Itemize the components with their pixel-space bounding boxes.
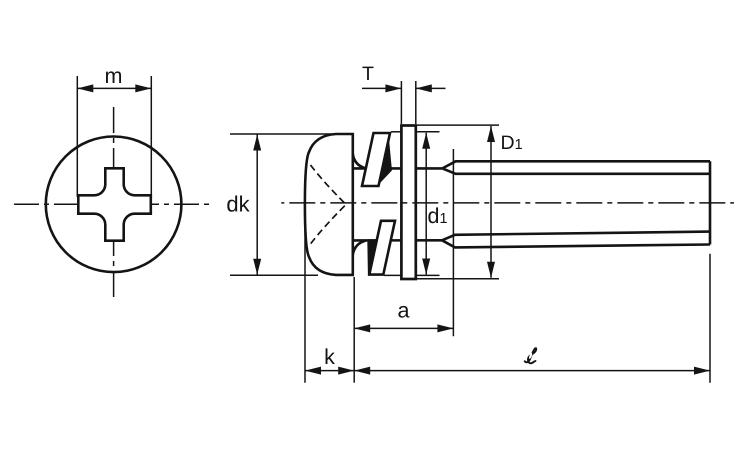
label k	[326, 348, 335, 364]
label d1	[428, 207, 446, 223]
screw head outline circle (front view)	[46, 137, 182, 273]
neck fillet bottom	[353, 241, 366, 255]
a extension line	[452, 149, 454, 336]
label l (script ell)	[525, 348, 537, 363]
d1 extension line bottom left segment	[384, 274, 401, 276]
D1 extension line top	[417, 124, 500, 126]
m extension line left	[76, 76, 78, 197]
T dimension arrows	[362, 87, 401, 89]
label D1	[502, 136, 522, 149]
label dk	[227, 196, 249, 212]
spring washer bottom half wedge	[367, 239, 379, 274]
l dimension line	[354, 370, 710, 372]
front view: vertical centerline	[113, 107, 115, 300]
neck fillet top	[353, 154, 366, 168]
label m	[106, 71, 121, 83]
m extension line right	[150, 76, 152, 197]
T extension line left	[400, 81, 402, 124]
dk extension line bottom	[230, 274, 318, 276]
d1 dimension line	[425, 133, 427, 275]
shaft entry line bottom	[353, 239, 442, 242]
d1 extension line top	[417, 131, 440, 133]
label a	[398, 306, 409, 318]
a dimension line	[354, 327, 453, 329]
d1 extension line top left segment	[391, 131, 401, 133]
l extension line right	[709, 254, 711, 383]
d1 extension line bottom	[417, 274, 440, 276]
dk extension line top	[230, 133, 336, 135]
T extension line right	[415, 81, 417, 124]
spring washer top half	[362, 133, 390, 186]
dk dimension line	[256, 135, 258, 275]
spring washer bottom half	[369, 221, 395, 275]
k extension line right	[353, 277, 355, 383]
D1 dimension line	[490, 126, 492, 278]
hidden recess arc lower (dashed)	[311, 206, 345, 244]
side view: pan head outline	[305, 134, 353, 275]
D1 extension line bottom	[417, 278, 500, 280]
label T	[362, 67, 373, 80]
phillips cross recess outline	[78, 168, 151, 240]
thread profile bottom	[442, 232, 710, 248]
spring washer top gap wedge	[378, 135, 392, 185]
axis centerline	[281, 202, 734, 204]
front view: horizontal centerline	[14, 203, 212, 205]
hidden recess arc upper (dashed)	[311, 165, 345, 203]
shaft entry line top (minor dia)	[353, 167, 442, 170]
flat washer	[401, 126, 415, 280]
thread profile top	[442, 161, 710, 174]
m dimension line	[77, 87, 151, 89]
shank end face	[709, 161, 712, 244]
k dimension line	[305, 370, 354, 372]
k extension line left	[304, 207, 306, 383]
